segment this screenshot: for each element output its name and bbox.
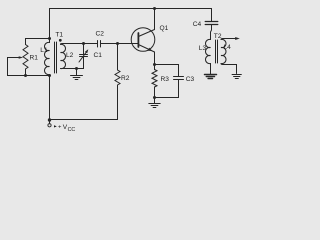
transformer T1 core: [55, 42, 57, 73]
resistor R1: [23, 45, 28, 70]
inductor L3 (T2 primary): [206, 39, 211, 63]
svg-text:Q1: Q1: [160, 25, 169, 32]
resistor R3: [152, 70, 157, 88]
wire R1 bottom lead: [25, 69, 27, 76]
wire C1 top lead: [83, 44, 85, 55]
wire L3 bottom lead: [210, 64, 212, 75]
wire bottom Vcc rail: [50, 119, 118, 121]
C1 variable arrow: [79, 52, 86, 62]
ground under L2: [71, 69, 83, 80]
transformer T2 core: [216, 40, 218, 63]
wire L4 output lead: [221, 39, 235, 40]
node junction dot R1 bottom: [24, 74, 27, 77]
svg-text:T1: T1: [55, 32, 63, 39]
svg-text:L3: L3: [199, 45, 207, 52]
svg-text:C4: C4: [193, 21, 202, 28]
wire L2 top to C2: [61, 43, 98, 46]
capacitor C1 (variable) plates: [80, 55, 88, 57]
capacitor C3: [174, 65, 184, 98]
wiper arrowhead into R1: [19, 56, 23, 59]
svg-text:R3: R3: [161, 76, 170, 83]
transistor Q1 circle: [131, 28, 155, 52]
terminal Vcc circle: [49, 122, 51, 124]
wire L1 bottom down to Vcc rail: [49, 75, 51, 120]
wire R3 bottom lead: [154, 87, 156, 98]
wire R1 top to node: [26, 39, 50, 45]
wire top supply rail: [50, 8, 212, 10]
Q1 emitter arrowhead: [148, 48, 153, 51]
resistor R2: [115, 70, 120, 85]
output arrowhead: [235, 37, 240, 40]
wire C2 to Q1 base: [101, 43, 139, 45]
Q1 base bar: [137, 33, 139, 47]
wire left vertical from rail to T1 primary: [49, 9, 51, 43]
svg-text:R2: R2: [121, 75, 130, 82]
svg-text:R1: R1: [30, 55, 39, 62]
wire rheostat wiper loop: [8, 58, 50, 76]
svg-text:L1: L1: [40, 47, 48, 54]
Q1 emitter: [138, 45, 154, 65]
T1 phasing dot: [59, 39, 62, 42]
ground under L4: [232, 75, 241, 79]
node junction dot emitter node: [153, 63, 156, 66]
wire C1 bottom to L2 bottom: [61, 57, 84, 69]
svg-text:L2: L2: [66, 52, 74, 59]
ground under R3: [149, 98, 160, 108]
node junction dot R2 top: [116, 42, 119, 45]
node junction dot L1 bottom: [48, 74, 51, 77]
inductor L1 (T1 primary): [45, 42, 50, 74]
node junction dot R3 bottom: [153, 96, 156, 99]
wire R2 top lead: [117, 44, 119, 71]
node junction dot collector/rail: [153, 7, 156, 10]
svg-text:C1: C1: [94, 52, 103, 59]
svg-text:T2: T2: [214, 33, 222, 40]
node junction dot C1 tap: [82, 42, 85, 45]
inductor L2 (T1 secondary): [61, 44, 66, 68]
node junction dot rail/R1 top: [48, 37, 51, 40]
wire R3 top lead: [154, 65, 156, 70]
inductor L4 (T2 secondary): [221, 39, 226, 63]
wire R2 bottom lead to Vcc rail: [117, 85, 119, 120]
svg-text:C2: C2: [96, 31, 105, 38]
svg-text:C3: C3: [186, 76, 195, 83]
wire rail corner to C4: [211, 9, 213, 22]
node junction dot Vcc tap: [48, 118, 51, 121]
label +Vcc: [54, 124, 75, 133]
ground under L3: [205, 75, 217, 79]
wire bottom node to C3: [155, 97, 179, 99]
node junction dot ground tap: [75, 67, 78, 70]
svg-text:L4: L4: [224, 44, 232, 51]
Q1 collector: [138, 9, 154, 37]
capacitor C2 plates: [98, 41, 101, 48]
wire L4 bottom lead: [221, 64, 237, 74]
capacitor C4 plates: [205, 22, 218, 25]
wire emitter node to C3: [155, 64, 179, 66]
svg-text:CC: CC: [68, 127, 76, 133]
wire C4 to T2 primary: [211, 25, 212, 40]
